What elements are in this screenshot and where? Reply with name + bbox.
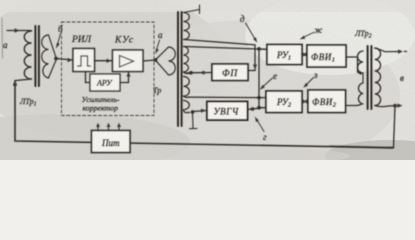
svg-text:в: в (400, 73, 404, 83)
block RU1 (267, 45, 302, 65)
paper grain (0, 0, 415, 160)
bottom terminal wire (375, 106, 399, 107)
transformer Tr core (177, 12, 179, 126)
wire RIL down to ARU (86, 72, 91, 83)
transformer LTr1 core (34, 26, 36, 86)
arrowhead into UVGCh (201, 109, 206, 113)
svg-text:УВГЧ: УВГЧ (214, 107, 239, 117)
input wire a (7, 30, 31, 32)
tap wire winding to FP node (185, 72, 191, 74)
svg-text:б: б (58, 24, 63, 34)
block RU2 (266, 91, 302, 113)
paper background (0, 0, 415, 160)
label a2 arrow (157, 40, 160, 50)
FP node dot (189, 71, 193, 75)
svg-text:д: д (240, 14, 245, 24)
dot UVGCh output (251, 107, 255, 111)
wire FVI2 to LTr2 (346, 105, 362, 106)
lower bus wire to RU1 (184, 47, 267, 50)
Tr secondary winding W3 (184, 77, 190, 98)
scan artifact left page edge (1, 18, 4, 58)
arrowhead into KUs (107, 59, 112, 63)
svg-text:е: е (273, 71, 277, 81)
arrowhead down on elbow (253, 65, 257, 70)
svg-text:РИЛ: РИЛ (71, 35, 92, 45)
Tr secondary winding W4 (184, 101, 190, 113)
label g arrow (257, 120, 264, 132)
svg-text:корректор: корректор (83, 104, 119, 113)
svg-text:ж: ж (314, 25, 323, 35)
block Pit (92, 131, 131, 153)
wire UVGCh output (248, 108, 260, 109)
bottom stub of Tr (192, 112, 195, 129)
label z arrow (307, 78, 314, 85)
block FVI1 (307, 45, 346, 67)
svg-text:а: а (3, 40, 8, 50)
node a dot (154, 58, 158, 62)
transformer LTr2 secondary winding (375, 48, 381, 106)
label zh arrow (304, 33, 314, 38)
block RIL (73, 49, 95, 72)
upper bus wire to elbow (184, 40, 255, 71)
svg-text:а: а (158, 30, 163, 40)
svg-text:г: г (263, 132, 267, 142)
wire ltr2 right down to rail (394, 106, 396, 148)
transformer LTr1 secondary fan winding (42, 35, 56, 78)
node b dot (54, 57, 58, 61)
arrowhead up into KUs (126, 72, 130, 77)
wire winding bottom to left rail (16, 79, 32, 81)
svg-text:ФП: ФП (222, 69, 238, 79)
FP feed wire with left arrowhead (191, 72, 212, 74)
input arrowhead (15, 28, 20, 32)
svg-text:з: з (313, 70, 318, 80)
wire W3 bottom to RU2 over UVGCh (188, 96, 259, 99)
wire KUs output to node a (143, 60, 156, 61)
label b arrow (58, 34, 61, 45)
bottom rail wire (15, 81, 394, 148)
dot bottom terminal (393, 104, 397, 108)
block FP (212, 64, 248, 81)
label e arrow (263, 78, 273, 87)
wire RU1 to FVI1 (302, 54, 307, 56)
junction dot lower bus (257, 47, 261, 51)
transformer Tr fan winding (156, 47, 175, 75)
junction dot upper stub (257, 96, 261, 100)
block KUs (113, 50, 144, 72)
amplifier triangle inside KUs (120, 56, 134, 68)
Tr secondary winding W2 (184, 47, 191, 74)
stub to RU2 input lower (259, 107, 266, 109)
transformer LTr2 lower left winding (358, 83, 363, 104)
junction dot left rail (13, 83, 17, 87)
svg-text:Пит: Пит (101, 138, 120, 148)
svg-text:КУс: КУс (114, 36, 134, 46)
wire RU2 to FVI2 (302, 101, 308, 103)
stub to RU2 input upper (259, 97, 266, 99)
wire RIL to KUs (95, 60, 113, 62)
wire fan apex to RIL (56, 59, 73, 61)
top terminal wire (375, 48, 400, 52)
junction dot lower stub (257, 106, 261, 110)
transformer LTr2 core (367, 46, 369, 109)
svg-text:АРУ: АРУ (96, 79, 113, 88)
wire FVI1 to LTr2 (346, 57, 361, 74)
block FVI2 (308, 90, 346, 113)
Tr secondary winding W1 (184, 13, 190, 40)
label d arrow (246, 23, 256, 39)
block UVGCh (207, 102, 248, 121)
svg-text:Тр: Тр (153, 86, 161, 95)
paper shading patches (0, 0, 415, 172)
wire ARU to KUs bottom (120, 72, 129, 83)
arrowhead into RIL (68, 58, 73, 62)
transformer LTr2 upper left winding (358, 51, 364, 73)
dashed box usilitel-korrektor (62, 22, 155, 116)
block ARU (90, 74, 120, 91)
vertical bus wire (258, 49, 260, 108)
Tr top stub (184, 10, 200, 13)
trigger symbol inside RIL (78, 56, 91, 66)
W3 bottom elbow dot (191, 110, 195, 114)
scan smudge bottom right over rail (330, 146, 392, 148)
Pit arrows up (97, 125, 99, 131)
link between left windings (362, 73, 364, 83)
transformer LTr1 primary winding (24, 31, 31, 79)
wire to UVGCh input (193, 111, 208, 112)
